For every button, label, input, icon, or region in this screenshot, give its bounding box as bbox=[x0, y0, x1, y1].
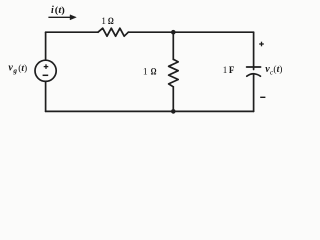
svg-text:F: F bbox=[229, 65, 235, 75]
current arrow i(t) bbox=[48, 15, 76, 20]
wire: top-left segment bbox=[46, 31, 98, 33]
polarity - (capacitor bottom) bbox=[260, 96, 265, 98]
node junction dot top bbox=[171, 30, 176, 35]
wire: left vertical upper bbox=[45, 32, 47, 60]
svg-text:(t): (t) bbox=[55, 5, 65, 16]
svg-text:g: g bbox=[12, 67, 17, 75]
wire: bottom bbox=[46, 110, 254, 112]
wire: left vertical lower bbox=[45, 81, 47, 111]
capacitor C top plate bbox=[247, 66, 261, 68]
svg-text:(t): (t) bbox=[18, 63, 27, 74]
svg-text:i: i bbox=[51, 5, 54, 16]
capacitor C curved plate bbox=[247, 74, 261, 76]
svg-text:1: 1 bbox=[223, 65, 228, 75]
svg-text:1: 1 bbox=[143, 68, 148, 78]
svg-text:Ω: Ω bbox=[151, 68, 157, 78]
resistor R top zigzag bbox=[98, 28, 128, 36]
wire: middle vertical lower bbox=[172, 87, 174, 112]
svg-text:1: 1 bbox=[101, 17, 106, 27]
node junction dot bottom bbox=[171, 109, 176, 114]
wire: middle vertical upper bbox=[172, 32, 174, 59]
resistor R2 vertical zigzag bbox=[169, 59, 179, 87]
svg-text:(t): (t) bbox=[273, 64, 282, 75]
polarity - inside source bbox=[43, 74, 49, 76]
svg-text:Ω: Ω bbox=[108, 17, 114, 27]
wire: top-right segment bbox=[128, 31, 253, 33]
source VG circle bbox=[35, 60, 56, 81]
polarity + inside source bbox=[44, 64, 49, 69]
polarity + (capacitor top) bbox=[259, 42, 264, 47]
wire: right vertical lower bbox=[253, 74, 255, 111]
wire: right vertical upper bbox=[253, 32, 255, 69]
